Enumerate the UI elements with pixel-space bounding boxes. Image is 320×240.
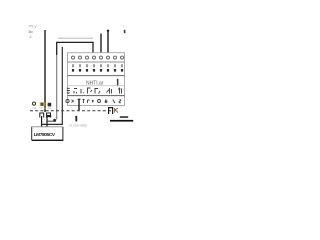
divider line 4	[68, 95, 125, 97]
kappa label (brownish)	[115, 108, 118, 113]
divider line 2	[68, 75, 125, 77]
bottom terminal glyph row	[66, 99, 121, 103]
svg-text:r.··: r.··	[123, 25, 127, 29]
ground bar short	[120, 116, 128, 118]
module U1 box	[68, 53, 125, 106]
terminal circles top row	[72, 56, 124, 59]
wire A (left vertical)	[44, 30, 46, 112]
divider line 1	[68, 61, 125, 63]
enclosure dash-dot boundary	[30, 110, 112, 112]
wire C (gray vertical)	[56, 55, 58, 120]
pi connector right of dash end	[109, 108, 113, 114]
regulator VR1 box	[32, 127, 63, 140]
node labels top-left text block	[29, 24, 37, 39]
wire F	[100, 34, 102, 59]
svg-text:.l:.: .l:.	[29, 34, 33, 39]
pin name squares row	[72, 69, 123, 72]
label bar	[117, 79, 119, 86]
divider line 3 faint	[68, 85, 125, 87]
wire G	[107, 30, 109, 58]
LED yellow blob	[40, 102, 45, 106]
svg-text:P5.y: P5.y	[29, 24, 37, 29]
component mark below wire E	[75, 116, 77, 122]
wire faint parallel	[58, 37, 93, 39]
connector pi-brackets below boundary	[40, 113, 51, 118]
junction dot	[53, 119, 56, 122]
relay symbols row	[67, 88, 122, 95]
component dark glyph	[48, 103, 51, 107]
svg-text:LM7805CV: LM7805CV	[34, 132, 56, 138]
thick bar	[47, 115, 51, 117]
svg-text:..: ..	[127, 30, 129, 34]
node label top-right faint	[123, 25, 129, 35]
ground bar long	[110, 120, 133, 122]
legs into regulator	[41, 116, 43, 127]
wire D (long vertical into regulator)	[41, 47, 62, 124]
wire E from module bottom	[78, 99, 80, 111]
left indicator circle	[32, 102, 35, 105]
faint sublabels	[33, 107, 52, 109]
wire junction horizontal	[47, 120, 56, 122]
wire bridge top	[57, 42, 93, 57]
pin number ticks row	[73, 64, 122, 67]
svg-text:ur nou·older: ur nou·older	[69, 124, 88, 128]
